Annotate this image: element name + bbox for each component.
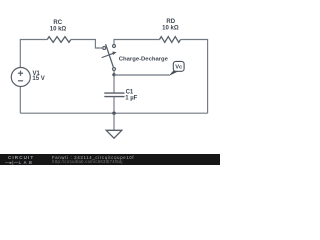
wire left rail V1 bottom to bottom rail	[19, 87, 21, 114]
capacitor C1	[104, 92, 124, 94]
svg-text:RC: RC	[53, 20, 62, 26]
resistor RC	[47, 37, 71, 43]
svg-text:10 kΩ: 10 kΩ	[162, 25, 179, 31]
wire switch bottom throw to node	[113, 71, 115, 75]
svg-text:RD: RD	[166, 19, 175, 25]
ground	[113, 113, 115, 130]
wire node to Vc flag	[114, 74, 169, 76]
wire top-left rail from V1 to RC	[20, 40, 47, 68]
svg-text:15 V: 15 V	[32, 76, 44, 82]
wire capacitor to bottom rail	[113, 97, 115, 113]
node flag Vc	[169, 70, 179, 76]
junction dot bottom rail	[112, 112, 115, 115]
svg-text:Charge-Decharge: Charge-Decharge	[119, 57, 169, 63]
watermark CircuitLab logo	[8, 155, 34, 160]
switch SW1 top throw terminal	[113, 45, 116, 48]
switch SW1 lever	[106, 44, 114, 67]
wire node to capacitor	[113, 75, 115, 93]
voltage source V1	[11, 68, 30, 87]
wire bottom rail	[20, 112, 207, 114]
watermark text	[52, 155, 134, 160]
svg-text:1 µF: 1 µF	[125, 95, 137, 101]
wire RC to switch pole (step down)	[71, 40, 103, 49]
switch SW1 actuation arrow	[102, 53, 114, 57]
svg-text:Vc: Vc	[175, 65, 182, 71]
switch SW1 bottom throw terminal	[113, 68, 116, 71]
wire RD to right rail	[181, 40, 208, 114]
resistor RD	[160, 37, 181, 43]
switch SW1 pole terminal	[103, 47, 106, 50]
svg-text:10 kΩ: 10 kΩ	[50, 26, 67, 32]
wire top throw stub to top rail	[114, 40, 160, 45]
node junction dot (switch/cap/Vc)	[112, 73, 115, 76]
watermark bar	[0, 154, 220, 165]
